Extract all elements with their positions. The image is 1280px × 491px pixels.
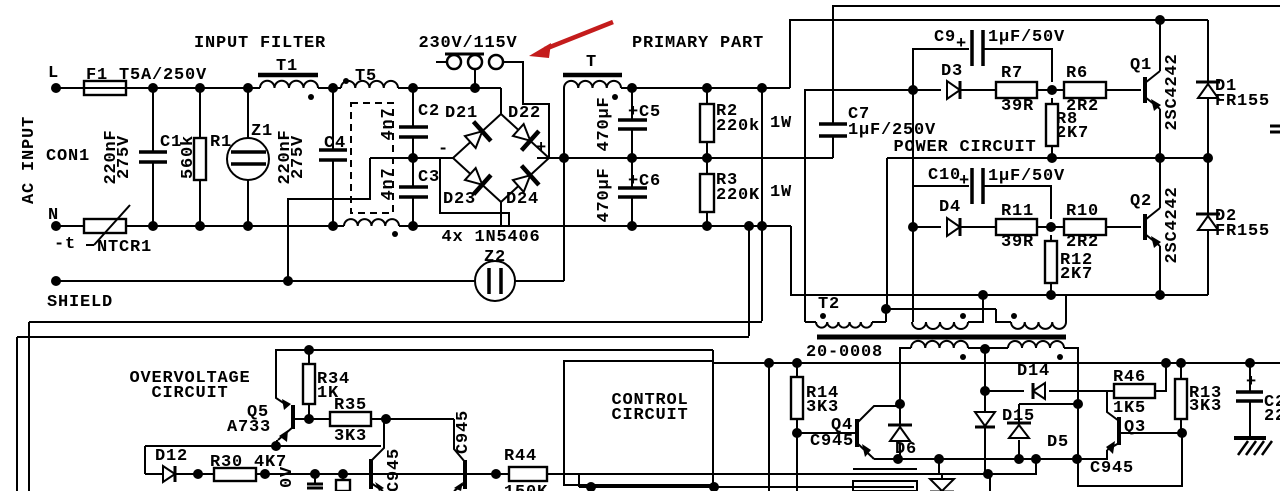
- svg-text:N: N: [48, 206, 59, 225]
- svg-text:Z1: Z1: [251, 122, 273, 141]
- svg-text:R1: R1: [210, 133, 232, 152]
- svg-text:22µ: 22µ: [1264, 407, 1280, 426]
- svg-text:T2: T2: [818, 295, 840, 314]
- svg-text:Q3: Q3: [1124, 418, 1146, 437]
- svg-text:C945: C945: [810, 432, 854, 451]
- svg-text:C4: C4: [324, 134, 346, 153]
- svg-text:275V: 275V: [289, 135, 308, 179]
- svg-text:1µF/50V: 1µF/50V: [988, 167, 1065, 186]
- svg-text:FR155: FR155: [1215, 92, 1270, 111]
- svg-text:4n7: 4n7: [379, 167, 398, 200]
- svg-text:1W: 1W: [770, 183, 792, 202]
- svg-text:2K7: 2K7: [1060, 265, 1093, 284]
- svg-text:D22: D22: [508, 104, 541, 123]
- svg-text:C945: C945: [385, 448, 404, 491]
- svg-text:+: +: [1246, 373, 1257, 392]
- svg-text:+: +: [536, 139, 547, 158]
- svg-text:1W: 1W: [770, 114, 792, 133]
- svg-text:39R: 39R: [1001, 97, 1034, 116]
- svg-text:Q2: Q2: [1130, 192, 1152, 211]
- svg-text:R30 4K7: R30 4K7: [210, 453, 287, 472]
- svg-text:L: L: [48, 64, 59, 83]
- svg-text:C945: C945: [454, 410, 473, 454]
- svg-text:D15: D15: [1002, 407, 1035, 426]
- svg-text:CON1: CON1: [46, 147, 90, 166]
- svg-text:C9: C9: [934, 28, 956, 47]
- svg-text:1K5: 1K5: [1113, 399, 1146, 418]
- svg-text:A733: A733: [227, 418, 271, 437]
- svg-text:275V: 275V: [115, 135, 134, 179]
- svg-text:0V: 0V: [278, 466, 297, 488]
- svg-text:470µF: 470µF: [595, 167, 614, 222]
- svg-text:D21: D21: [445, 104, 478, 123]
- svg-text:D4: D4: [939, 198, 961, 217]
- svg-text:T5: T5: [355, 67, 377, 86]
- svg-text:INPUT FILTER: INPUT FILTER: [194, 34, 326, 53]
- svg-text:R35: R35: [334, 396, 367, 415]
- svg-text:220k: 220k: [716, 117, 760, 136]
- svg-text:R6: R6: [1066, 64, 1088, 83]
- svg-text:2K7: 2K7: [1056, 124, 1089, 143]
- svg-text:D6: D6: [895, 440, 917, 459]
- svg-text:R7: R7: [1001, 64, 1023, 83]
- svg-text:Q1: Q1: [1130, 56, 1152, 75]
- svg-text:R44: R44: [504, 447, 537, 466]
- svg-text:T: T: [586, 53, 597, 72]
- svg-text:D14: D14: [1017, 362, 1050, 381]
- svg-text:2R2: 2R2: [1066, 233, 1099, 252]
- svg-text:R10: R10: [1066, 202, 1099, 221]
- svg-text:4n7: 4n7: [379, 107, 398, 140]
- svg-text:T1: T1: [276, 57, 298, 76]
- svg-text:+C6: +C6: [628, 172, 661, 191]
- svg-text:C3: C3: [418, 168, 440, 187]
- svg-text:AC INPUT: AC INPUT: [20, 116, 39, 204]
- svg-text:POWER CIRCUIT: POWER CIRCUIT: [893, 138, 1036, 157]
- svg-text:20-0008: 20-0008: [806, 343, 883, 362]
- svg-text:D12: D12: [155, 447, 188, 466]
- svg-text:3K3: 3K3: [334, 427, 367, 446]
- svg-text:SHIELD: SHIELD: [47, 293, 113, 312]
- svg-text:+: +: [959, 172, 970, 191]
- svg-text:2SC4242: 2SC4242: [1163, 186, 1182, 263]
- svg-text:230V/115V: 230V/115V: [418, 34, 517, 53]
- svg-text:-t: -t: [54, 235, 76, 254]
- svg-text:3K3: 3K3: [806, 398, 839, 417]
- svg-text:220K: 220K: [716, 186, 760, 205]
- svg-text:C10: C10: [928, 166, 961, 185]
- svg-text:Z2: Z2: [484, 248, 506, 267]
- svg-text:NTCR1: NTCR1: [97, 238, 152, 257]
- svg-text:D23: D23: [443, 190, 476, 209]
- svg-text:C2: C2: [418, 102, 440, 121]
- svg-text:-: -: [438, 140, 449, 159]
- svg-text:F1 T5A/250V: F1 T5A/250V: [86, 66, 207, 85]
- svg-text:CIRCUIT: CIRCUIT: [151, 384, 228, 403]
- svg-text:R11: R11: [1001, 202, 1034, 221]
- svg-text:D5: D5: [1047, 433, 1069, 452]
- svg-text:2SC4242: 2SC4242: [1163, 53, 1182, 130]
- svg-text:CIRCUIT: CIRCUIT: [611, 406, 688, 425]
- svg-text:C945: C945: [1090, 459, 1134, 478]
- svg-text:D24: D24: [506, 190, 539, 209]
- svg-text:+C5: +C5: [628, 103, 661, 122]
- svg-text:PRIMARY PART: PRIMARY PART: [632, 34, 764, 53]
- svg-text:4x 1N5406: 4x 1N5406: [441, 228, 540, 247]
- svg-text:3K3: 3K3: [1189, 397, 1222, 416]
- svg-text:D3: D3: [941, 62, 963, 81]
- svg-text:560k: 560k: [179, 135, 198, 179]
- svg-text:150K: 150K: [504, 483, 548, 491]
- svg-text:+: +: [956, 35, 967, 54]
- svg-text:R46: R46: [1113, 368, 1146, 387]
- svg-text:1µF/50V: 1µF/50V: [988, 28, 1065, 47]
- svg-text:470µF: 470µF: [595, 96, 614, 151]
- svg-text:39R: 39R: [1001, 233, 1034, 252]
- svg-text:FR155: FR155: [1215, 222, 1270, 241]
